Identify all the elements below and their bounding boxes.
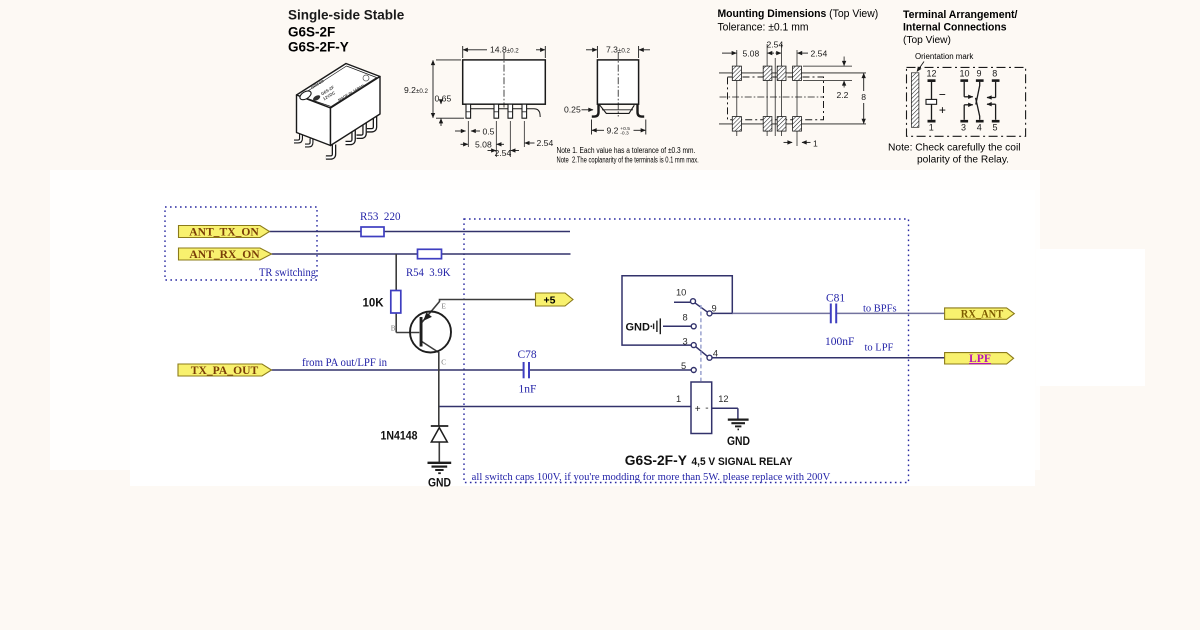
svg-text:0.25: 0.25 [564,105,581,115]
svg-text:Mounting Dimensions (Top View): Mounting Dimensions (Top View) [718,8,879,20]
svg-text:5.08: 5.08 [743,49,760,59]
svg-text:LPF: LPF [969,352,991,365]
svg-text:C78: C78 [518,349,537,361]
svg-text:1: 1 [813,139,818,149]
svg-text:0.65: 0.65 [435,94,452,104]
svg-text:9: 9 [712,303,717,313]
svg-text:R54 3.9K: R54 3.9K [406,267,451,279]
svg-text:TX_PA_OUT: TX_PA_OUT [191,364,259,377]
svg-text:Terminal Arrangement/: Terminal Arrangement/ [903,9,1018,21]
svg-text:8: 8 [861,92,866,102]
svg-text:to LPF: to LPF [865,343,894,354]
svg-text:9: 9 [977,69,982,79]
svg-text:+5: +5 [544,294,556,306]
svg-text:from PA out/LPF in: from PA out/LPF in [302,357,387,369]
svg-text:4: 4 [713,348,718,358]
svg-text:+: + [939,103,946,117]
svg-text:10: 10 [676,287,686,297]
svg-text:Tolerance: ±0.1 mm: Tolerance: ±0.1 mm [718,22,809,34]
svg-text:100nF: 100nF [825,336,854,348]
svg-text:G6S-2F-Y: G6S-2F-Y [288,40,349,55]
svg-text:8: 8 [683,313,688,323]
svg-text:2.54: 2.54 [811,49,828,59]
svg-text:Note 1. Each value has a toler: Note 1. Each value has a tolerance of ±0… [557,146,696,155]
svg-text:4,5 V SIGNAL RELAY: 4,5 V SIGNAL RELAY [692,456,793,468]
svg-text:9.2: 9.2 [607,125,619,135]
svg-text:5.08: 5.08 [475,139,492,149]
svg-text:0.5: 0.5 [483,126,495,136]
svg-text:all switch caps 100V, if you'r: all switch caps 100V, if you're modding … [472,472,831,483]
svg-text:Internal Connections: Internal Connections [903,22,1007,34]
svg-text:1: 1 [929,122,934,132]
svg-text:-0.3: -0.3 [620,131,629,137]
svg-text:10K: 10K [363,298,385,310]
svg-text:2.54: 2.54 [495,148,512,158]
svg-text:Note 2.The coplanarity of the: Note 2.The coplanarity of the terminals … [557,155,699,164]
svg-text:3: 3 [961,122,966,132]
svg-text:+: + [695,404,701,415]
svg-text:GND: GND [626,322,651,334]
svg-text:3: 3 [683,336,688,346]
svg-text:ANT_RX_ON: ANT_RX_ON [189,248,260,261]
svg-text:RX_ANT: RX_ANT [961,307,1004,320]
svg-text:R53 220: R53 220 [360,211,401,223]
svg-text:TR switching: TR switching [259,267,316,279]
svg-text:G6S-2F: G6S-2F [288,25,335,40]
svg-text:12: 12 [718,394,728,404]
svg-text:E: E [442,303,447,311]
svg-text:8: 8 [992,69,997,79]
svg-text:ANT_TX_ON: ANT_TX_ON [189,225,259,238]
svg-text:(Top View): (Top View) [903,35,951,46]
svg-text:GND: GND [428,476,451,490]
svg-text:C81: C81 [826,293,845,305]
svg-text:4: 4 [977,122,982,132]
svg-text:2.54: 2.54 [537,138,554,148]
svg-text:Single-side Stable: Single-side Stable [288,8,405,23]
svg-text:polarity of the Relay.: polarity of the Relay. [917,155,1009,166]
svg-text:1nF: 1nF [519,384,537,396]
svg-text:5: 5 [681,361,686,371]
svg-text:B: B [391,325,396,333]
svg-text:5: 5 [993,122,998,132]
svg-text:Orientation mark: Orientation mark [915,52,973,61]
svg-text:1: 1 [676,394,681,404]
svg-text:1N4148: 1N4148 [381,431,419,443]
svg-text:G6S-2F-Y: G6S-2F-Y [625,453,687,468]
svg-text:10: 10 [960,69,970,79]
svg-text:GND: GND [727,434,750,448]
svg-text:to BPFs: to BPFs [863,304,897,315]
svg-text:Note: Check carefully the coil: Note: Check carefully the coil [888,143,1021,154]
svg-text:−: − [939,87,946,101]
svg-text:12: 12 [927,69,937,79]
svg-text:C: C [441,359,446,367]
svg-text:-: - [705,403,708,414]
svg-text:2.2: 2.2 [837,90,849,100]
svg-text:2.54: 2.54 [767,39,784,49]
